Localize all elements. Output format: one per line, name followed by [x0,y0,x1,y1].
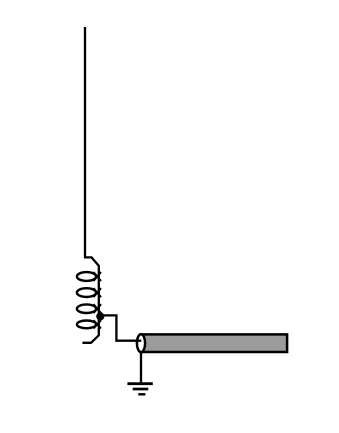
ground [127,384,152,395]
inductor L1 turn 4 [77,321,96,329]
wire: coil top lead, right-side return and bottom hook [82,257,98,342]
inductor L1 turn 2 [77,288,96,297]
inductor L1 turn 3 [77,304,96,313]
coax cable left end face [137,334,145,352]
wire crossover at turn 1 tip [94,272,102,281]
wire crossover at turn 3 tip [94,304,102,313]
inductor L1 turn 1 [77,272,96,281]
wire: vertical antenna element [84,27,86,258]
wire crossover at turn 4 tip [94,320,102,328]
wire crossover at turn 2 tip [94,288,102,297]
wire: coax shield to ground [140,351,142,385]
wire: tap to coax center conductor [102,315,141,340]
node: coil tap junction dot [96,312,104,320]
coax cable body (shield) [141,334,288,352]
